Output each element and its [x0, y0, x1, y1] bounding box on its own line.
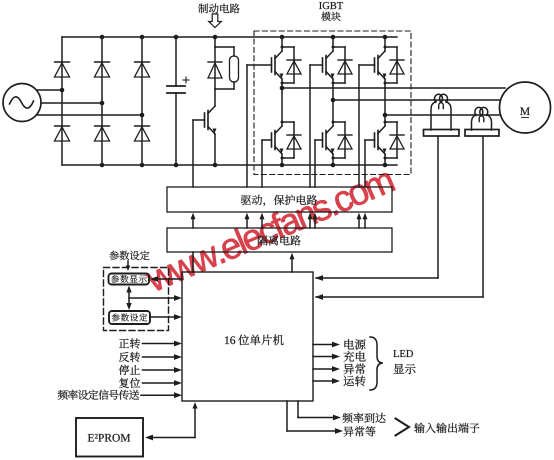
wire leg W collector [384, 37, 386, 51]
node leg W output [383, 113, 388, 118]
wire brake gate [193, 119, 205, 121]
node phase W junction [140, 113, 145, 118]
wire mcu to display [156, 278, 182, 280]
node bottom bus x142 [140, 163, 145, 168]
block isolation circuit [167, 228, 392, 252]
transistor Q4 top IGBT [378, 51, 385, 59]
wire drive-isolation arrow x359 [358, 218, 360, 228]
wire brake mid [214, 89, 216, 106]
wire LED 运转 [313, 380, 333, 382]
label input 复位 [119, 378, 140, 388]
label LED 运转 [344, 376, 366, 387]
diode D12 bottom antiparallel [333, 121, 345, 123]
wire leg V emitter [332, 154, 334, 165]
diode D13 bottom antiparallel [385, 121, 397, 123]
node bottom bus x215 [213, 163, 218, 168]
diode D2 (top) [95, 61, 110, 63]
wire frequency signal [141, 394, 176, 396]
ac source G1 [3, 84, 41, 122]
wire leg W middle [384, 79, 386, 126]
node top bus x176 [174, 35, 179, 40]
label parameter display [111, 275, 147, 283]
wire output U [282, 87, 505, 89]
wire drive-isolation arrow x262 [261, 218, 263, 228]
wire gate drive top V [310, 64, 323, 66]
label 16-bit MCU [225, 336, 235, 344]
wire set to mcu [150, 316, 175, 318]
node bottom bus x385 [383, 163, 388, 168]
label IGBT [319, 2, 343, 9]
label braking circuit [198, 4, 239, 14]
wire gate drive bottom U [262, 139, 272, 141]
label input 反转 [119, 352, 140, 362]
IGBT module dashed box [254, 31, 411, 175]
wire gate drive top U [247, 64, 272, 66]
wire output W [385, 114, 501, 116]
diode D9 top antiparallel [333, 46, 345, 48]
node leg W diode taps [384, 46, 387, 49]
wire leg W emitter [384, 154, 386, 165]
transistor Q3 top IGBT [326, 51, 333, 59]
label LED 电源 [344, 339, 365, 350]
wire positive bus [62, 36, 397, 38]
diode D10 top antiparallel [385, 46, 397, 48]
node leg V bottom diode taps [332, 121, 335, 124]
brace LED group [370, 337, 383, 390]
label module [321, 12, 340, 21]
arrow under title [127, 261, 129, 266]
node leg V diode taps [332, 46, 335, 49]
wire gate drive top W [359, 64, 375, 66]
motor M [500, 82, 551, 133]
wire drive-isolation arrow x310 [309, 218, 311, 228]
block parameter display [109, 274, 150, 285]
node top bus x282 [280, 35, 285, 40]
hollow arrow into braking circuit [209, 14, 222, 28]
block MCU 16-bit [182, 272, 313, 401]
transistor Q6 bottom IGBT [326, 126, 333, 134]
diode D4 (bottom) [55, 125, 70, 127]
wire phase W [38, 114, 143, 116]
wire params to mcu mid [129, 297, 175, 299]
label E2PROM [88, 434, 130, 442]
diode D7 freewheel [214, 47, 216, 89]
label LED [393, 350, 413, 357]
wire CT1 output [437, 137, 439, 279]
wire isolation to mcu [192, 252, 194, 272]
block drive-protection circuit [167, 187, 392, 212]
block E2PROM [76, 418, 143, 457]
wire leg U collector [281, 37, 283, 51]
wire gate drive bottom V [315, 139, 323, 141]
diode D5 (bottom) [95, 125, 110, 127]
block parameter set [109, 311, 150, 324]
label LED 异常 [343, 364, 365, 375]
label drive-protection [241, 195, 317, 206]
node phase V junction [100, 101, 105, 106]
wire drive-isolation arrow x247 [246, 218, 248, 228]
wire input 复位 [143, 382, 177, 384]
watermark www.elecfans.com [143, 165, 395, 292]
current sensor CT1 [424, 130, 460, 137]
wire rectifier leg 3 [141, 37, 143, 165]
node leg U bottom diode taps [281, 121, 284, 124]
wire brake emitter [214, 134, 216, 165]
node top bus x385 [383, 35, 388, 40]
wire input 停止 [143, 369, 177, 371]
label abnormal etc [343, 426, 375, 436]
node bottom bus x176 [174, 163, 179, 168]
terminal chevron [396, 419, 410, 436]
label frequency signal [58, 390, 139, 400]
diode D6 (bottom) [135, 125, 150, 127]
wire phase V [42, 102, 103, 104]
wire drive-isolation arrow x193 [192, 218, 194, 228]
capacitor C1 [175, 37, 177, 86]
node leg W bottom diode taps [384, 121, 387, 124]
transistor Q7 bottom IGBT [378, 126, 385, 134]
diode D3 (top) [135, 61, 150, 63]
wire phase U [37, 89, 62, 91]
wire drive-isolation arrow x365 [364, 218, 366, 228]
node top bus x215 [213, 35, 218, 40]
label isolation [258, 235, 301, 245]
diode D8 top antiparallel [282, 46, 294, 48]
wire input 反转 [143, 356, 177, 358]
node bottom bus x282 [280, 163, 285, 168]
node top bus x333 [331, 35, 336, 40]
label input 正转 [119, 338, 140, 348]
node leg U output [280, 86, 285, 91]
wire input 正转 [143, 343, 177, 345]
label input 停止 [119, 365, 140, 375]
node leg V output [331, 98, 336, 103]
wire leg V middle [332, 79, 334, 126]
wire brake top [214, 37, 216, 47]
label LED 充电 [343, 351, 365, 362]
node phase U junction [60, 88, 65, 93]
node top bus x142 [140, 35, 145, 40]
wire leg V collector [332, 37, 334, 51]
resistor R1 brake [215, 46, 234, 48]
wire negative bus [62, 164, 397, 166]
wire CT2 output [482, 137, 484, 298]
wire mcu to isolation [291, 258, 293, 272]
transistor Q1 brake IGBT [208, 106, 215, 114]
label parameter set [112, 313, 148, 321]
wire leg U emitter [281, 154, 283, 165]
transistor Q2 top IGBT [275, 51, 282, 59]
label LED display [394, 364, 416, 374]
wire output V [333, 99, 503, 101]
node top bus x102 [100, 35, 105, 40]
wire LED 电源 [313, 344, 333, 346]
wire LED 充电 [313, 356, 333, 358]
label frequency arrival [342, 413, 385, 423]
wire drive-isolation arrow x315 [314, 218, 316, 228]
wire LED 异常 [313, 368, 333, 370]
wire gate drive bottom W [365, 139, 375, 141]
label parameter setting title [109, 251, 149, 260]
label io terminals [414, 423, 479, 433]
wire E2PROM link [145, 435, 153, 441]
current sensor CT2 [465, 130, 499, 137]
node bottom bus x333 [331, 163, 336, 168]
wire abnormal [286, 401, 288, 431]
wire rectifier leg 2 [101, 37, 103, 165]
node leg U diode taps [281, 46, 284, 49]
wire display-set double arrow [128, 290, 130, 306]
wire frequency-arrival [297, 401, 299, 418]
node bottom bus x102 [100, 163, 105, 168]
transistor Q5 bottom IGBT [275, 126, 282, 134]
diode D11 bottom antiparallel [282, 121, 294, 123]
diode D1 (top) [55, 61, 70, 63]
wire rectifier leg 1 [61, 37, 63, 165]
wire leg U middle [281, 79, 283, 126]
dashed parameter box [104, 268, 169, 331]
